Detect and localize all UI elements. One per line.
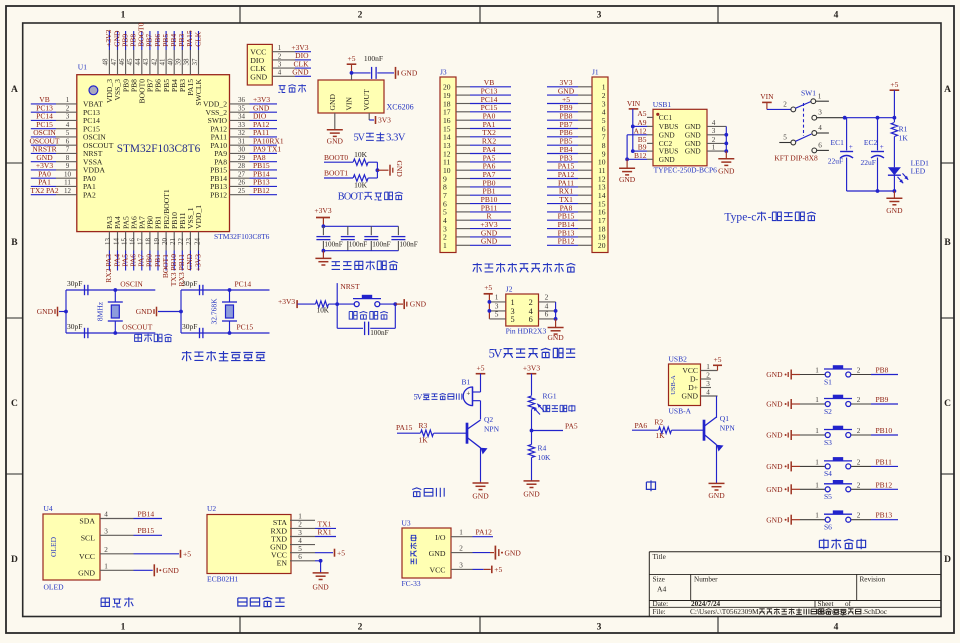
svg-text:42: 42 xyxy=(150,58,158,66)
svg-text:TX2 PA2: TX2 PA2 xyxy=(30,186,59,195)
svg-text:32.768K: 32.768K xyxy=(210,298,219,325)
svg-text:5: 5 xyxy=(495,310,499,319)
svg-text:6: 6 xyxy=(66,137,70,145)
svg-text:4: 4 xyxy=(278,69,282,77)
svg-text:PA15: PA15 xyxy=(396,423,413,432)
svg-text:40: 40 xyxy=(167,58,175,66)
svg-text:35: 35 xyxy=(238,104,246,112)
svg-text:NPN: NPN xyxy=(484,425,500,434)
svg-text:USB-A: USB-A xyxy=(670,375,677,395)
svg-text:U1: U1 xyxy=(78,63,87,72)
svg-text:2: 2 xyxy=(459,545,463,553)
svg-text:GND: GND xyxy=(708,491,725,500)
svg-text:6: 6 xyxy=(529,315,533,324)
svg-text:28: 28 xyxy=(238,162,246,170)
svg-text:GND: GND xyxy=(659,155,675,164)
svg-text:1: 1 xyxy=(121,623,126,633)
svg-text:GND: GND xyxy=(37,307,54,316)
svg-text:2: 2 xyxy=(298,521,302,529)
svg-text:1: 1 xyxy=(66,96,70,104)
svg-text:33: 33 xyxy=(238,121,246,129)
svg-text:GND: GND xyxy=(766,515,783,524)
svg-text:S2: S2 xyxy=(824,407,832,416)
svg-text:GND: GND xyxy=(766,431,783,440)
svg-text:3: 3 xyxy=(597,11,602,21)
svg-text:37: 37 xyxy=(191,58,199,66)
svg-text:100nF: 100nF xyxy=(364,54,383,63)
svg-text:GND: GND xyxy=(410,300,427,309)
svg-text:4: 4 xyxy=(834,11,839,21)
svg-text:3: 3 xyxy=(818,109,822,117)
svg-text:10K: 10K xyxy=(354,181,368,190)
svg-text:1: 1 xyxy=(459,529,463,537)
svg-text:A4: A4 xyxy=(657,585,666,594)
svg-text:GND: GND xyxy=(395,161,404,178)
svg-text:10: 10 xyxy=(64,170,72,178)
svg-text:VIN: VIN xyxy=(345,96,354,110)
svg-text:+: + xyxy=(466,390,470,398)
svg-text:PA2: PA2 xyxy=(83,190,96,199)
svg-text:3.3V: 3.3V xyxy=(386,133,406,144)
svg-text:J2: J2 xyxy=(506,285,513,294)
svg-text:3: 3 xyxy=(278,61,282,69)
svg-text:30pF: 30pF xyxy=(182,279,197,288)
svg-text:S6: S6 xyxy=(824,523,832,532)
svg-text:2: 2 xyxy=(66,104,70,112)
svg-text:VCC: VCC xyxy=(79,552,95,561)
svg-text:1K: 1K xyxy=(899,134,909,143)
svg-text:2: 2 xyxy=(857,512,861,520)
svg-text:D: D xyxy=(944,555,951,565)
svg-text:GND: GND xyxy=(682,392,699,401)
svg-text:GND: GND xyxy=(718,167,735,176)
svg-text:1: 1 xyxy=(121,11,126,21)
svg-text:2: 2 xyxy=(529,298,533,307)
svg-text:NRST: NRST xyxy=(340,282,360,291)
svg-text:PB12: PB12 xyxy=(876,480,893,489)
svg-text:9: 9 xyxy=(66,162,70,170)
svg-text:3: 3 xyxy=(597,623,602,633)
svg-text:GND: GND xyxy=(523,490,540,499)
svg-text:1: 1 xyxy=(815,481,819,489)
svg-text:1K: 1K xyxy=(419,436,429,445)
svg-text:1: 1 xyxy=(511,298,515,307)
svg-text:1: 1 xyxy=(815,458,819,466)
svg-text:C:\Users\.\T0562309M: C:\Users\.\T0562309M xyxy=(690,607,759,616)
svg-text:GND: GND xyxy=(766,370,783,379)
svg-text:GND: GND xyxy=(328,94,337,111)
svg-text:5V: 5V xyxy=(354,133,366,144)
svg-text:R1: R1 xyxy=(899,125,908,134)
svg-text:VDD_1: VDD_1 xyxy=(194,205,203,229)
svg-text:S1: S1 xyxy=(824,377,832,386)
svg-text:48: 48 xyxy=(102,58,110,66)
svg-text:D: D xyxy=(11,555,18,565)
svg-text:5: 5 xyxy=(298,545,302,553)
svg-text:B: B xyxy=(11,238,18,248)
svg-text:PB9: PB9 xyxy=(876,395,889,404)
svg-text:30pF: 30pF xyxy=(182,322,197,331)
svg-text:21: 21 xyxy=(169,238,177,246)
svg-text:PA6: PA6 xyxy=(635,421,648,430)
svg-text:8: 8 xyxy=(66,154,70,162)
svg-text:GND: GND xyxy=(163,566,180,575)
svg-text:PB12: PB12 xyxy=(253,186,270,195)
svg-text:20: 20 xyxy=(161,238,169,246)
svg-text:GND: GND xyxy=(136,307,153,316)
svg-text:VIN: VIN xyxy=(760,92,774,101)
svg-text:EN: EN xyxy=(277,559,288,568)
svg-text:GND: GND xyxy=(292,68,309,77)
svg-text:SDA: SDA xyxy=(79,517,95,526)
svg-text:100nF: 100nF xyxy=(399,241,417,249)
svg-text:+5: +5 xyxy=(477,364,485,373)
svg-text:1: 1 xyxy=(104,563,108,571)
svg-text:22uF: 22uF xyxy=(828,157,843,166)
svg-text:3: 3 xyxy=(298,529,302,537)
svg-text:S5: S5 xyxy=(824,492,832,501)
svg-text:Type-c: Type-c xyxy=(724,212,756,224)
svg-text:100nF: 100nF xyxy=(370,329,388,337)
svg-text:SWCLK: SWCLK xyxy=(194,78,203,105)
svg-text:R4: R4 xyxy=(538,444,547,453)
svg-text:VOUT: VOUT xyxy=(362,89,371,110)
svg-text:U3: U3 xyxy=(402,519,411,528)
svg-text:20: 20 xyxy=(598,241,606,250)
svg-text:U4: U4 xyxy=(44,504,53,513)
svg-text:45: 45 xyxy=(126,58,134,66)
svg-text:2: 2 xyxy=(857,427,861,435)
svg-text:File:: File: xyxy=(653,608,666,616)
svg-text:FC-33: FC-33 xyxy=(402,579,421,588)
svg-text:ECB02H1: ECB02H1 xyxy=(207,575,239,584)
svg-text:100nF: 100nF xyxy=(324,241,342,249)
svg-text:30: 30 xyxy=(238,146,246,154)
svg-text:EC2: EC2 xyxy=(864,138,878,147)
svg-text:KFT DIP-8X8: KFT DIP-8X8 xyxy=(774,154,818,163)
svg-text:B: B xyxy=(944,238,951,248)
svg-text:R2: R2 xyxy=(654,417,663,426)
svg-text:GND: GND xyxy=(481,237,498,246)
svg-text:39: 39 xyxy=(175,58,183,66)
svg-text:GND: GND xyxy=(78,568,95,577)
svg-text:PC14: PC14 xyxy=(235,280,252,289)
svg-text:4: 4 xyxy=(298,537,302,545)
svg-text:4: 4 xyxy=(104,511,108,519)
svg-text:R3: R3 xyxy=(419,421,428,430)
svg-text:11: 11 xyxy=(64,179,71,187)
svg-text:41: 41 xyxy=(158,58,166,66)
svg-text:2: 2 xyxy=(857,367,861,375)
svg-text:5V: 5V xyxy=(414,393,423,402)
svg-text:I/O: I/O xyxy=(435,533,446,542)
svg-text:8MHz: 8MHz xyxy=(95,301,104,321)
svg-text:2: 2 xyxy=(857,396,861,404)
svg-text:VCC: VCC xyxy=(429,566,445,575)
svg-text:26: 26 xyxy=(238,179,246,187)
svg-text:44: 44 xyxy=(134,58,142,66)
svg-text:GND: GND xyxy=(327,137,344,146)
svg-text:2: 2 xyxy=(104,546,108,554)
svg-text:34: 34 xyxy=(238,113,246,121)
svg-text:1: 1 xyxy=(818,92,822,100)
svg-text:GND: GND xyxy=(472,492,489,501)
svg-text:43: 43 xyxy=(142,58,150,66)
svg-text:6: 6 xyxy=(818,142,822,150)
svg-text:U2: U2 xyxy=(207,504,216,513)
svg-text:USB-A: USB-A xyxy=(669,407,692,416)
svg-text:C: C xyxy=(11,399,18,409)
svg-text:+5: +5 xyxy=(183,549,191,558)
svg-text:13: 13 xyxy=(104,238,112,246)
svg-text:SW1: SW1 xyxy=(801,89,816,98)
svg-text:100nF: 100nF xyxy=(349,241,367,249)
svg-text:+: + xyxy=(880,143,884,151)
svg-text:Q1: Q1 xyxy=(720,414,729,423)
svg-text:J3: J3 xyxy=(440,68,447,77)
svg-text:1: 1 xyxy=(712,144,716,152)
svg-text:NPN: NPN xyxy=(720,423,736,432)
svg-text:PB8: PB8 xyxy=(876,366,889,375)
svg-text:Revision: Revision xyxy=(860,576,886,584)
svg-text:10K: 10K xyxy=(538,453,552,462)
svg-text:+: + xyxy=(849,143,853,151)
svg-text:4: 4 xyxy=(706,388,710,396)
svg-text:14: 14 xyxy=(112,238,120,246)
svg-text:EC1: EC1 xyxy=(831,138,845,147)
svg-text:3: 3 xyxy=(66,113,70,121)
svg-text:PC15: PC15 xyxy=(237,323,254,332)
svg-text:A: A xyxy=(11,85,18,95)
svg-text:32: 32 xyxy=(238,129,246,137)
svg-text:2: 2 xyxy=(706,371,710,379)
svg-text:2: 2 xyxy=(358,11,363,21)
svg-text:2: 2 xyxy=(857,481,861,489)
svg-text:+3V3: +3V3 xyxy=(278,297,295,306)
svg-text:GND: GND xyxy=(766,400,783,409)
svg-text:+5: +5 xyxy=(714,355,722,364)
svg-text:PB14: PB14 xyxy=(138,509,155,518)
svg-text:-: - xyxy=(768,212,772,224)
svg-text:OLED: OLED xyxy=(49,536,58,557)
svg-text:2: 2 xyxy=(857,458,861,466)
svg-text:BOOT1: BOOT1 xyxy=(324,169,348,178)
svg-text:Title: Title xyxy=(653,553,666,561)
svg-text:PB11: PB11 xyxy=(876,457,893,466)
svg-text:S4: S4 xyxy=(824,469,832,478)
svg-text:GND: GND xyxy=(401,69,418,78)
svg-text:C: C xyxy=(944,399,951,409)
svg-text:1: 1 xyxy=(815,512,819,520)
svg-text:of: of xyxy=(845,600,852,608)
svg-text:OSCIN: OSCIN xyxy=(120,280,143,289)
svg-text:PA5: PA5 xyxy=(565,421,578,430)
svg-text:.SchDoc: .SchDoc xyxy=(862,607,888,616)
svg-text:1: 1 xyxy=(495,293,499,302)
svg-text:5: 5 xyxy=(66,129,70,137)
svg-text:3: 3 xyxy=(712,127,716,135)
svg-text:USB2: USB2 xyxy=(669,355,688,364)
svg-text:18: 18 xyxy=(145,238,153,246)
svg-text:Number: Number xyxy=(694,576,718,584)
svg-text:GND: GND xyxy=(619,175,636,184)
svg-text:GND: GND xyxy=(547,333,564,342)
svg-text:SCL: SCL xyxy=(81,533,96,542)
svg-text:1: 1 xyxy=(298,513,302,521)
svg-text:5V: 5V xyxy=(489,347,503,361)
svg-text:A5: A5 xyxy=(637,109,646,118)
svg-text:RG1: RG1 xyxy=(543,392,557,401)
svg-text:1: 1 xyxy=(815,427,819,435)
svg-text:3: 3 xyxy=(104,528,108,536)
svg-text:6: 6 xyxy=(545,310,549,319)
svg-text:BOOT: BOOT xyxy=(338,192,364,203)
svg-text:STM32F103C8T6: STM32F103C8T6 xyxy=(214,232,270,241)
svg-text:TYPEC-250D-BCP6: TYPEC-250D-BCP6 xyxy=(654,166,718,175)
svg-text:30pF: 30pF xyxy=(67,279,82,288)
svg-text:4: 4 xyxy=(818,124,822,132)
svg-text:VIN: VIN xyxy=(627,99,641,108)
svg-text:PB13: PB13 xyxy=(876,511,893,520)
svg-text:J1: J1 xyxy=(592,68,599,77)
svg-text:47: 47 xyxy=(110,58,118,66)
svg-text:XC6206: XC6206 xyxy=(387,103,414,112)
svg-text:6: 6 xyxy=(298,553,302,561)
svg-text:4: 4 xyxy=(66,121,70,129)
svg-text:22uF: 22uF xyxy=(861,158,876,167)
svg-text:+5: +5 xyxy=(494,565,502,574)
svg-text:LED: LED xyxy=(911,167,926,176)
svg-text:2: 2 xyxy=(358,623,363,633)
svg-text:3: 3 xyxy=(459,561,463,569)
svg-text:100nF: 100nF xyxy=(372,241,390,249)
svg-text:GND: GND xyxy=(685,147,701,156)
svg-text:GND: GND xyxy=(766,485,783,494)
svg-text:Pin HDR2X3: Pin HDR2X3 xyxy=(506,326,547,335)
svg-text:1: 1 xyxy=(278,44,282,52)
svg-text:PB15: PB15 xyxy=(138,526,155,535)
svg-text:46: 46 xyxy=(118,58,126,66)
svg-text:+3V3: +3V3 xyxy=(193,254,202,271)
svg-text:22: 22 xyxy=(177,238,185,246)
svg-text:BOOT0: BOOT0 xyxy=(324,153,348,162)
svg-text:Q2: Q2 xyxy=(484,415,493,424)
svg-text:10K: 10K xyxy=(354,150,368,159)
svg-text:2: 2 xyxy=(278,52,282,60)
svg-text:1K: 1K xyxy=(655,431,665,440)
svg-text:1: 1 xyxy=(815,367,819,375)
svg-text:GND: GND xyxy=(886,206,903,215)
svg-text:23: 23 xyxy=(185,238,193,246)
svg-text:16: 16 xyxy=(129,238,137,246)
svg-text:27: 27 xyxy=(238,170,246,178)
svg-text:3V3: 3V3 xyxy=(378,116,391,125)
svg-text:+5: +5 xyxy=(484,283,492,292)
svg-text:CLK: CLK xyxy=(193,31,202,47)
svg-text:3: 3 xyxy=(706,380,710,388)
svg-text:GND: GND xyxy=(429,549,446,558)
svg-text:+5: +5 xyxy=(337,548,345,557)
svg-text:19: 19 xyxy=(153,238,161,246)
svg-text:PA12: PA12 xyxy=(476,527,493,536)
svg-text:CC1: CC1 xyxy=(659,113,673,122)
svg-text:+3V3: +3V3 xyxy=(523,364,540,373)
svg-text:PB10: PB10 xyxy=(876,426,893,435)
svg-text:17: 17 xyxy=(137,238,145,246)
svg-text:Size: Size xyxy=(653,576,665,584)
svg-text:1: 1 xyxy=(443,241,447,250)
svg-text:+3V3: +3V3 xyxy=(314,206,331,215)
svg-text:B1: B1 xyxy=(462,378,471,387)
svg-text:Sheet: Sheet xyxy=(818,600,834,608)
svg-text:GND: GND xyxy=(250,72,267,81)
svg-text:GND: GND xyxy=(766,462,783,471)
svg-text:4: 4 xyxy=(712,119,716,127)
svg-text:A: A xyxy=(944,85,951,95)
svg-text:GND: GND xyxy=(505,548,522,557)
svg-text:4: 4 xyxy=(834,623,839,633)
svg-text:31: 31 xyxy=(238,137,246,145)
svg-text:+5: +5 xyxy=(890,80,898,89)
svg-text:29: 29 xyxy=(238,154,246,162)
svg-text:B12: B12 xyxy=(634,151,647,160)
svg-text:30pF: 30pF xyxy=(67,322,82,331)
svg-text:38: 38 xyxy=(183,58,191,66)
svg-text:12: 12 xyxy=(64,187,72,195)
svg-text:USB1: USB1 xyxy=(653,100,672,109)
svg-text:+5: +5 xyxy=(348,54,356,63)
svg-text:OSCOUT: OSCOUT xyxy=(122,323,152,332)
svg-text:25: 25 xyxy=(238,187,246,195)
svg-text:24: 24 xyxy=(193,238,201,246)
svg-text:RX1: RX1 xyxy=(318,528,332,537)
svg-text:15: 15 xyxy=(120,238,128,246)
svg-text:1: 1 xyxy=(706,363,710,371)
svg-text:Date:: Date: xyxy=(653,600,669,608)
svg-text:5: 5 xyxy=(511,315,515,324)
svg-text:OLED: OLED xyxy=(44,583,65,592)
svg-text:36: 36 xyxy=(238,96,246,104)
svg-text:1: 1 xyxy=(815,396,819,404)
svg-text:S3: S3 xyxy=(824,438,832,447)
svg-text:2: 2 xyxy=(783,101,787,109)
svg-text:5: 5 xyxy=(783,134,787,142)
svg-text:7: 7 xyxy=(66,146,70,154)
svg-text:PB12: PB12 xyxy=(210,190,227,199)
svg-text:STM32F103C8T6: STM32F103C8T6 xyxy=(117,143,201,155)
svg-text:10K: 10K xyxy=(317,307,330,315)
svg-text:GND: GND xyxy=(312,583,329,592)
svg-text:PB12: PB12 xyxy=(558,237,575,246)
svg-text:2: 2 xyxy=(545,293,549,302)
